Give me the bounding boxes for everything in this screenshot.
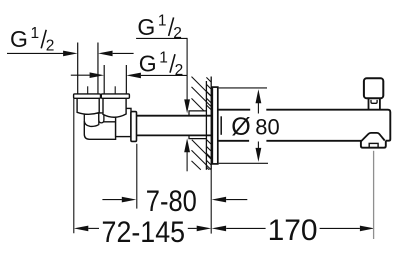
svg-text:Ø: Ø: [231, 113, 250, 141]
connection pipe top edge: [137, 115, 212, 117]
svg-text:G: G: [139, 51, 157, 77]
arrow pipe 2 left: [71, 74, 90, 76]
svg-text:1: 1: [159, 49, 168, 66]
union nut 1 (left cup): [77, 98, 99, 114]
pipe flare at wall (top): [189, 111, 207, 116]
diverter neck right edge: [379, 98, 381, 109]
spout wall flange (escutcheon): [212, 87, 218, 164]
spout tube bottom edge: [266, 140, 361, 142]
spout underside profile (mouth dome): [361, 133, 385, 141]
extension line flange top: [219, 87, 267, 89]
wall face line (left): [205, 81, 207, 170]
pipe 1 centre mark: [87, 86, 89, 93]
svg-text:72-145: 72-145: [102, 216, 186, 249]
flange plate right: [101, 94, 129, 98]
union collar: [131, 112, 137, 142]
svg-text:2: 2: [173, 25, 182, 42]
connection pipe bottom edge: [137, 134, 212, 136]
pipe 2 centre mark: [114, 86, 116, 93]
inlet pipe 1 right edge / extension line: [97, 43, 99, 95]
dim d80 lower arrow: [256, 148, 262, 162]
extension line spout outlet (grey): [373, 151, 375, 239]
aerator: [369, 143, 378, 147]
inlet pipe 2 left edge / extension line: [103, 65, 105, 94]
inlet pipe 2 right edge / extension line: [125, 65, 127, 94]
label G 1/2 (wall pipe): [137, 13, 181, 43]
svg-text:G: G: [137, 14, 155, 40]
svg-text:2: 2: [175, 62, 184, 79]
leader for left G 1/2 with arrow: [7, 52, 63, 54]
spout tube bottom edge (left of dim gap): [218, 140, 249, 142]
pipe flare at wall (bottom): [189, 135, 207, 138]
arrow pipe 2 right / leader of right G 1/2: [126, 73, 140, 79]
elbow body block: [84, 122, 115, 140]
svg-text:2: 2: [46, 38, 55, 55]
spout connection socket edge: [220, 116, 222, 135]
flange plate left: [74, 94, 101, 98]
union nut 2 (right cup): [103, 98, 126, 117]
label G 1/2 (right inlet): [139, 49, 183, 79]
extension line flange bottom: [219, 162, 268, 164]
spout tube top edge (left of dim gap): [218, 109, 250, 111]
dim 7-80 left arrow: [102, 199, 122, 201]
down arrow to pipe: [184, 99, 190, 113]
svg-text:G: G: [10, 26, 28, 52]
svg-text:7-80: 7-80: [146, 185, 197, 218]
spout mouthpiece outline: [361, 141, 386, 148]
elbow centre tube between unions: [99, 113, 104, 123]
wall hatching (cross-section): [192, 71, 212, 173]
up arrow to pipe: [184, 138, 190, 152]
extension line union collar: [136, 144, 138, 209]
elbow lower-left boss: [84, 113, 99, 127]
diverter knob: [364, 78, 383, 98]
dim d80 upper arrow: [256, 89, 262, 103]
dim 72-145: [74, 226, 89, 232]
svg-text:80: 80: [255, 115, 279, 140]
spout tube top edge and right end: [266, 110, 390, 141]
extension line fixture left: [73, 99, 75, 234]
diverter neck left edge: [368, 98, 370, 109]
dim 7-80 right arrow: [212, 197, 227, 203]
svg-text:1: 1: [31, 25, 40, 42]
dim 170: [212, 226, 227, 232]
wall line (right) continuing as extension line to dimensions: [210, 77, 212, 170]
svg-text:1: 1: [158, 13, 167, 30]
label G 1/2 (left inlet): [10, 25, 54, 55]
svg-text:170: 170: [268, 214, 318, 247]
leader of top G 1/2: [136, 37, 187, 39]
opposing arrow pipe 1: [98, 51, 113, 57]
inlet pipe 1 left edge / extension line: [77, 43, 79, 95]
union nut on horizontal outlet: [116, 108, 131, 136]
diverter neck notch: [371, 100, 377, 103]
